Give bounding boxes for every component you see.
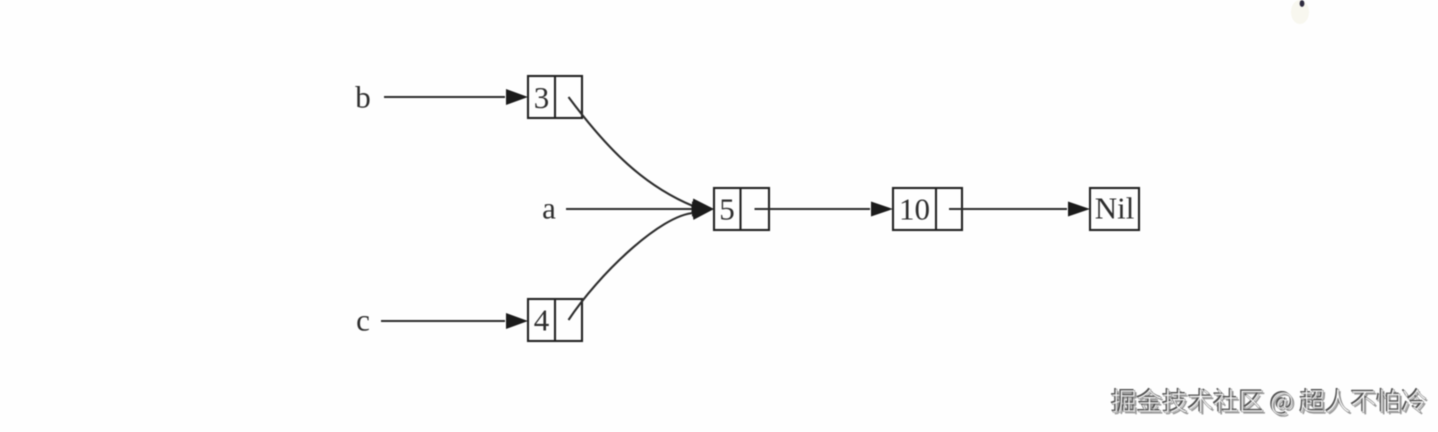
node 10 box bbox=[893, 188, 962, 230]
node 5 box bbox=[714, 188, 769, 230]
wire node 4 next to node 5 (curved) bbox=[569, 213, 695, 320]
svg-text:3: 3 bbox=[534, 80, 550, 115]
wire b to node 3 bbox=[384, 96, 505, 98]
watermark juejin bbox=[1111, 388, 1428, 417]
arrowhead node 3 to node 5 bbox=[691, 199, 715, 217]
node 3 box bbox=[528, 76, 582, 118]
arrowhead node 4 to node 5 bbox=[691, 202, 715, 220]
svg-text:5: 5 bbox=[719, 192, 735, 227]
svg-text:Nil: Nil bbox=[1095, 191, 1135, 226]
wire c to node 4 bbox=[381, 320, 505, 322]
arrowhead b to node 3 bbox=[506, 89, 528, 105]
svg-text:a: a bbox=[542, 191, 556, 226]
arrowhead node 10 to node Nil bbox=[1068, 202, 1090, 217]
ink speck top right bbox=[1291, 0, 1309, 24]
wire node 3 next to node 5 (curved) bbox=[569, 97, 694, 206]
svg-text:4: 4 bbox=[534, 303, 550, 338]
wire node 5 next to node 10 bbox=[755, 208, 871, 210]
svg-text:10: 10 bbox=[899, 192, 930, 227]
arrowhead a to node 5 bbox=[692, 202, 714, 217]
arrowhead c to node 4 bbox=[506, 313, 528, 329]
wire a to node 5 bbox=[566, 208, 692, 210]
svg-text:c: c bbox=[356, 303, 370, 338]
arrowhead node 5 to node 10 bbox=[871, 202, 893, 217]
wire node 10 next to node Nil bbox=[949, 208, 1067, 210]
node 4 box bbox=[528, 299, 582, 341]
svg-text:b: b bbox=[355, 80, 371, 115]
node Nil box bbox=[1090, 188, 1139, 230]
